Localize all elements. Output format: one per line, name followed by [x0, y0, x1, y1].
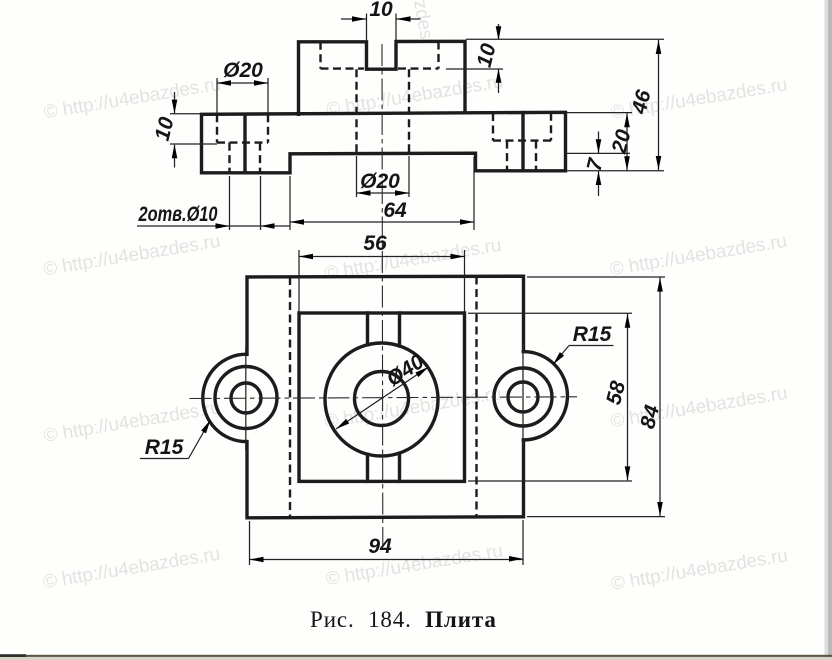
front view: left body wall edge — [243, 114, 246, 173]
plan view: left counterbore circle — [215, 367, 277, 429]
plan view: right hole vertical centerline — [522, 343, 524, 449]
svg-text:Рис. 184. Плита: Рис. 184. Плита — [310, 607, 497, 632]
svg-text:94: 94 — [368, 535, 392, 558]
vertical centerline through both views — [381, 44, 384, 546]
svg-text:64: 64 — [383, 199, 407, 222]
svg-text:58: 58 — [602, 379, 630, 408]
dimension 46 right — [466, 39, 664, 171]
watermark row1 col2 — [325, 71, 505, 121]
watermark row4 col2 — [324, 541, 504, 591]
svg-text:10: 10 — [151, 115, 179, 144]
plan view: right hole circle — [508, 382, 538, 412]
svg-text:10: 10 — [369, 0, 393, 21]
dimension 58 — [468, 313, 632, 481]
dimension 7 right — [567, 132, 630, 197]
dimension 84 — [527, 277, 665, 517]
plan view: left hole circle — [231, 383, 261, 413]
front view: plate outline — [202, 112, 566, 173]
plan view: hidden boss edges — [290, 277, 477, 518]
scan artifact: bottom page edge line — [0, 654, 26, 657]
scan artifact: right edge gray strip — [825, 0, 829, 657]
dimension 10 slot top — [341, 0, 421, 40]
watermark row1 col3 — [609, 74, 789, 124]
dimension Ø40 diagonal — [334, 350, 430, 432]
svg-text:© http://u4ebazdes.ru: © http://u4ebazdes.ru — [42, 231, 222, 281]
plan view: left tab arc R15 — [203, 354, 247, 441]
front view: right body wall edge — [521, 113, 524, 171]
watermark row2 col1 — [42, 231, 222, 281]
svg-text:© http://u4ebazdes.ru: © http://u4ebazdes.ru — [324, 541, 504, 591]
watermark row4 col3 — [609, 545, 789, 595]
dimension 56 — [299, 232, 465, 313]
leader R15 right — [551, 323, 614, 366]
plan view: circle Ø20 center — [355, 372, 409, 426]
svg-text:Ø20: Ø20 — [223, 59, 263, 82]
dimension 20 right — [567, 113, 636, 171]
svg-text:zdes: zdes — [409, 0, 437, 41]
plan view: outer plate outline — [247, 276, 524, 518]
svg-text:© http://u4ebazdes.ru: © http://u4ebazdes.ru — [42, 397, 222, 447]
front view: hidden hole Ø10 right — [507, 141, 536, 171]
dimension 64 — [290, 157, 474, 230]
svg-text:Ø20: Ø20 — [360, 170, 400, 193]
watermark rotated fragment top center — [409, 0, 437, 41]
plan view: slot channel edges — [368, 313, 400, 481]
plan view: horizontal centerline — [190, 397, 578, 399]
svg-text:2отв.Ø10: 2отв.Ø10 — [138, 203, 218, 226]
plan view: right counterbore circle — [494, 368, 552, 426]
front view: hidden hole Ø10 left — [230, 143, 261, 173]
leader R15 left — [140, 418, 213, 459]
dimension Ø20 top-left — [217, 59, 268, 114]
svg-text:© http://u4ebazdes.ru: © http://u4ebazdes.ru — [42, 74, 222, 124]
watermark row3 col3 — [609, 383, 789, 433]
watermark row2 col2 — [323, 235, 503, 285]
watermark row1 col1 — [42, 74, 222, 124]
svg-text:© http://u4ebazdes.ru: © http://u4ebazdes.ru — [42, 544, 222, 594]
plan view: boss rectangle — [299, 313, 465, 481]
svg-text:20: 20 — [607, 127, 635, 157]
plan view: left hole vertical centerline — [245, 347, 247, 450]
dimension 10 left — [151, 92, 217, 168]
watermark row3 col1 — [42, 397, 222, 447]
front view: hidden counterbore right — [493, 113, 551, 141]
dimension 10 slot depth right — [446, 24, 503, 93]
dimension 2 holes Ø10 — [137, 176, 290, 230]
front view: hidden recess Ø40 — [321, 42, 439, 69]
front view: top boss with slot — [299, 41, 466, 114]
caption Рис. 184. Плита — [310, 607, 497, 632]
svg-text:R15: R15 — [573, 323, 612, 346]
watermark row2 col3 — [608, 231, 788, 281]
watermark row4 col1 — [42, 544, 222, 594]
dimension Ø20 center — [357, 156, 410, 197]
watermark row3 col2 — [323, 383, 503, 433]
front view: hidden hole Ø20 center — [357, 69, 410, 153]
front view: hidden counterbore left — [217, 114, 268, 142]
svg-text:© http://u4ebazdes.ru: © http://u4ebazdes.ru — [608, 231, 788, 281]
svg-text:R15: R15 — [145, 436, 184, 459]
svg-text:© http://u4ebazdes.ru: © http://u4ebazdes.ru — [609, 545, 789, 595]
svg-text:10: 10 — [473, 41, 501, 70]
plan view: right tab arc R15 — [523, 352, 567, 440]
svg-text:56: 56 — [363, 232, 387, 255]
dimension 94 — [250, 520, 524, 565]
plan view: circle Ø40 — [325, 343, 438, 456]
